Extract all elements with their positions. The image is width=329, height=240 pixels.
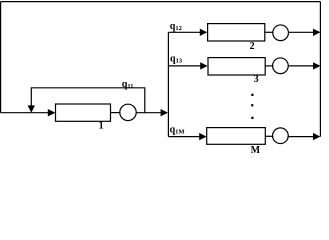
svg-text:M: M: [251, 145, 261, 156]
queue Q2: [208, 24, 265, 41]
arrow server M into collector: [313, 133, 320, 140]
wire server M output: [288, 136, 314, 138]
wire input to queue 1: [1, 112, 49, 114]
arrow into branch node: [161, 109, 168, 116]
wire right collector: [319, 2, 321, 137]
arrow server 3 into collector: [313, 62, 320, 69]
arrow into queue 2: [200, 29, 207, 36]
server SM: [273, 128, 289, 144]
svg-text:1: 1: [99, 121, 104, 132]
wire server 1 output: [136, 112, 161, 114]
server S2: [273, 25, 289, 41]
server S3: [273, 58, 289, 74]
wire branch to queue 2: [168, 31, 200, 33]
wire branch vertical: [167, 32, 169, 136]
wire queue 3 to server 3: [265, 65, 273, 67]
svg-text:3: 3: [254, 74, 259, 85]
wire branch to queue M: [168, 136, 199, 138]
wire branch to queue 3: [168, 65, 200, 67]
wire server 2 output: [288, 31, 313, 33]
wire server 3 output: [289, 65, 314, 67]
wire feedback loop q11: [31, 88, 145, 113]
wire left return path down: [0, 2, 2, 113]
wire top return path: [1, 1, 321, 3]
server S1: [120, 104, 136, 120]
arrow into queue 3: [200, 62, 207, 69]
queue Q1: [56, 104, 111, 121]
arrow feedback down into input wire: [28, 105, 35, 112]
arrow server 2 into collector: [313, 29, 320, 36]
wire queue M to server M: [265, 135, 273, 137]
queue QM: [207, 128, 266, 145]
svg-text:2: 2: [250, 41, 255, 52]
queue Q3: [208, 58, 265, 75]
wire queue 1 to server 1: [111, 112, 121, 114]
wire queue 2 to server 2: [265, 31, 274, 33]
ellipsis dots: [251, 94, 253, 119]
arrow into queue M: [199, 133, 206, 140]
arrow into queue 1: [48, 109, 56, 116]
